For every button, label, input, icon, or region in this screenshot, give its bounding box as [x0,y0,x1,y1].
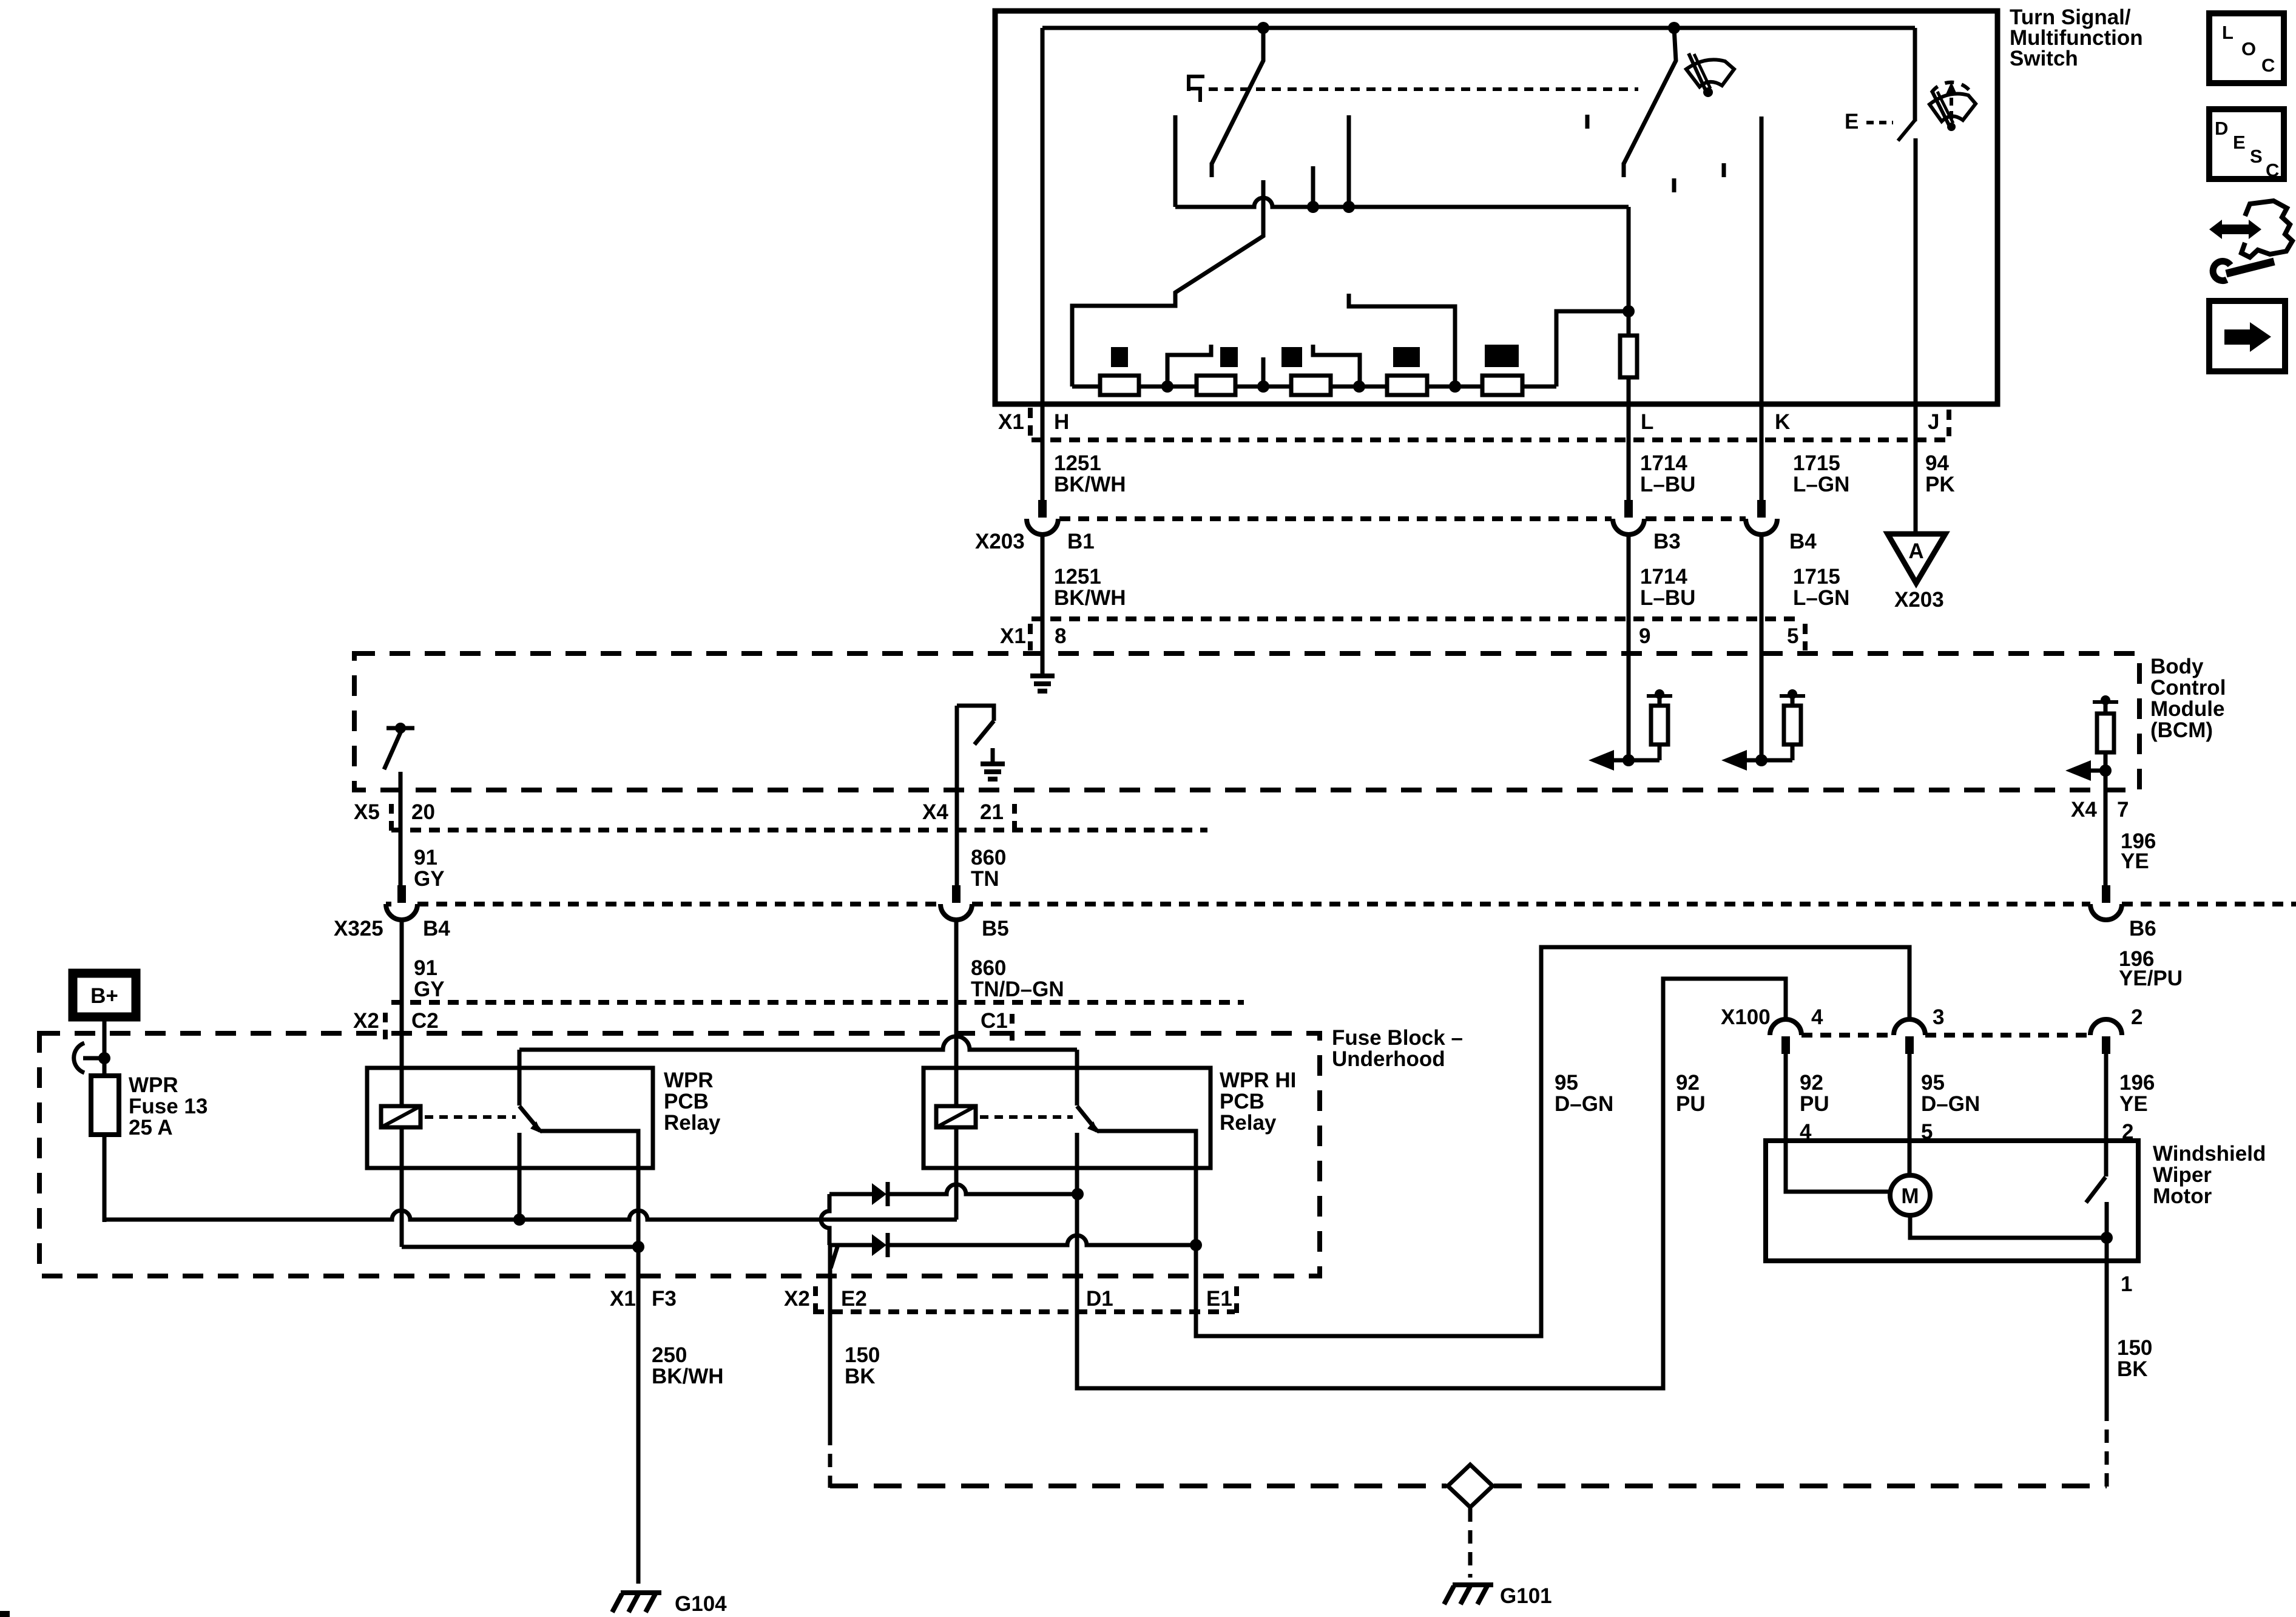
wire J lower [1914,138,1918,534]
off-page triangle A (to X203) [1888,534,1945,583]
connector line X325 [386,902,2296,906]
washer switch dashed link [1866,121,1893,124]
LOC box icon [2209,13,2284,83]
BCM park switch driver X4-21 [957,706,994,721]
svg-text:3: 3 [1933,1005,1944,1029]
svg-text:S: S [2250,146,2263,167]
washer switch blade SW-C [1898,120,1915,141]
wire motor to park switch [1910,1215,2107,1238]
wire from B+ [103,1014,107,1076]
svg-text:1714: 1714 [1640,451,1687,475]
node dot park switch common [2101,1232,2113,1244]
svg-text:91: 91 [414,956,437,980]
svg-text:2: 2 [2131,1005,2142,1029]
node dot ladder 4 [1449,380,1461,393]
park switch contact stub [2105,1202,2109,1238]
connector X325 pin B4 [397,885,406,903]
washer spray dashed arc [1931,83,1971,93]
node junction dot upper-right blade [1668,22,1680,34]
svg-text:94: 94 [1925,451,1949,475]
svg-text:1: 1 [2121,1272,2132,1296]
svg-text:PU: PU [1676,1092,1706,1116]
connector X203 pin B4 [1757,500,1766,518]
svg-text:X5: X5 [354,800,380,824]
relay K2 box [923,1068,1210,1168]
diode D1 line [829,1184,1078,1194]
connector tick after J [1947,410,1951,436]
resistor R6 (wash/mist) [1620,336,1637,377]
fixed contact post left [1173,115,1178,207]
connector tick X1 BCM [1028,624,1033,650]
svg-text:D1: D1 [1086,1287,1113,1311]
svg-text:B4: B4 [1789,530,1817,553]
svg-text:PK: PK [1925,473,1955,496]
gang tick 1 [1585,115,1590,129]
separator dotted line 2 [391,1000,1244,1005]
wire E2 drop with jog [828,1245,832,1432]
svg-text:150: 150 [845,1343,880,1367]
svg-text:PCB: PCB [664,1090,709,1113]
wire L upper segment [1627,207,1631,311]
fuse block dashed box [39,1033,1320,1276]
wire 5 segment to BCM [1760,535,1764,760]
ladder stub center [1261,357,1266,389]
svg-text:C: C [2266,160,2279,181]
contact stub row 2 [1347,115,1351,207]
svg-text:E2: E2 [841,1287,867,1311]
svg-text:8: 8 [1055,624,1066,648]
relay K2 NO contact line to E1 [1097,1131,1196,1336]
ground (park switch) [991,748,995,764]
svg-text:TN: TN [971,867,999,891]
node dot ladder 1 [1161,380,1173,393]
svg-text:C2: C2 [411,1009,439,1033]
contact pad square 5 [1485,345,1519,367]
wire C2 through coil [400,920,404,1106]
ground G104 [621,1590,661,1595]
relay K2 dashed link [980,1115,1073,1119]
svg-text:C: C [2261,55,2275,76]
diode D2 line [830,1235,1196,1245]
connector tick X2 bottom [813,1286,818,1313]
svg-text:L–GN: L–GN [1793,586,1849,610]
svg-text:YE/PU: YE/PU [2119,967,2183,990]
fuse WPR Fuse 13 25A [91,1076,119,1135]
svg-text:L–GN: L–GN [1793,473,1849,496]
relay K2 coil [936,1106,976,1127]
svg-text:5: 5 [1787,624,1798,648]
svg-text:Relay: Relay [664,1111,721,1135]
svg-text:91: 91 [414,846,437,869]
wire motor pin 2 into box [2104,1054,2109,1176]
gang tick 2 [1672,178,1676,192]
moving contact chain of rotary switch [1072,180,1263,387]
resistor R4 (delay) [1387,376,1427,395]
svg-text:WPR HI: WPR HI [1220,1068,1296,1092]
wire C1 through coil [954,920,959,1106]
ladder right riser to wire L [1556,311,1629,387]
svg-text:PU: PU [1800,1092,1829,1116]
ladder jumper hook C [1349,294,1455,387]
svg-text:9: 9 [1639,624,1650,648]
node dot K1 common on feed line [513,1214,525,1226]
connector tick after 5 [1803,624,1808,650]
relay K1 dashed link [425,1115,516,1119]
resistor R1 (delay) [1100,376,1139,395]
svg-text:(BCM): (BCM) [2150,718,2213,742]
svg-text:B+: B+ [90,984,118,1008]
svg-text:Fuse 13: Fuse 13 [129,1095,208,1118]
svg-text:L: L [1641,410,1653,434]
contact row line y341 with hop over moving contact [1175,198,1629,207]
diode CR2 [872,1234,886,1256]
node dot contact row 2 [1343,201,1355,213]
contact pad square 4 [1393,347,1420,367]
svg-text:GY: GY [414,867,445,891]
svg-text:L: L [2222,22,2234,43]
svg-text:92: 92 [1800,1071,1823,1095]
svg-text:Module: Module [2150,697,2224,721]
connector line X2 bottom [813,1309,1235,1314]
fuse clip symbol [74,1043,84,1073]
svg-text:BK: BK [2117,1357,2148,1381]
wire L below resistor [1627,377,1631,501]
contact stub SW-A [1210,163,1214,177]
svg-text:1251: 1251 [1054,451,1101,475]
gang tick 3 [1722,163,1726,177]
connector X325 pin B5 [952,885,961,903]
svg-text:250: 250 [652,1343,687,1367]
svg-text:YE: YE [2121,849,2149,873]
page artifact mark [0,1611,10,1617]
svg-text:Windshield: Windshield [2153,1142,2266,1166]
svg-text:J: J [1928,410,1939,434]
svg-text:25 A: 25 A [129,1116,173,1139]
svg-text:E: E [2233,132,2246,153]
svg-text:1714: 1714 [1640,565,1687,589]
wire 21 inside BCM [955,706,959,885]
contact stub SW-B [1622,163,1626,177]
relay top link with hop over C1 [519,1036,1077,1050]
wire E1 95 D-GN route [1196,947,1909,1336]
svg-text:860: 860 [971,846,1006,869]
wire K vertical (to pin K) [1760,116,1764,501]
svg-text:F3: F3 [652,1287,677,1311]
connector X203 pin B3 [1624,500,1633,518]
ground (BCM pin 8) [1041,660,1045,676]
wire D1 92 PU route [1077,979,1786,1388]
BCM switch driver X5-20 [387,726,414,731]
connector line X203 [1059,516,1746,521]
node dot at fuse top [98,1052,110,1064]
ladder jumper hook A [1167,345,1211,387]
ground distribution dashed line [830,1484,1447,1488]
line B coil return [402,1245,638,1249]
svg-text:PCB: PCB [1220,1090,1264,1113]
wire motor pin 5 [1908,1054,1912,1175]
relay K1 contact stub [518,1133,522,1220]
svg-text:L–BU: L–BU [1640,473,1695,496]
svg-text:B1: B1 [1067,530,1095,553]
connector X100 pin 2 [2090,1019,2122,1035]
svg-text:D–GN: D–GN [1555,1092,1613,1116]
svg-text:WPR: WPR [664,1068,714,1092]
svg-text:95: 95 [1555,1071,1578,1095]
connector tick after 21 [1012,804,1017,831]
svg-text:Motor: Motor [2153,1184,2212,1208]
relay K1 blade [519,1106,540,1131]
connector tick X2 [383,1013,388,1039]
contact pad square 1 [1111,347,1128,367]
ground G101 [1453,1582,1493,1587]
svg-text:G101: G101 [1500,1584,1552,1608]
connector line X100 [1801,1033,2090,1038]
connector line X1 [1032,437,1950,442]
switch blade SW-A (wiper on/off upper) [1212,28,1263,164]
contact stub row 1 [1311,166,1315,207]
resistor R3 (delay) [1291,376,1331,395]
svg-text:BK: BK [845,1365,876,1388]
svg-text:D–GN: D–GN [1921,1092,1980,1116]
svg-text:Body: Body [2150,655,2204,678]
svg-text:TN/D–GN: TN/D–GN [971,977,1064,1001]
B+ feed line A with hops [104,1210,957,1220]
next-page arrow box icon [2209,301,2285,371]
BCM input cell wire 5 (resistor + arrow) [1755,754,1768,766]
wire E2 dashed to ground line [828,1432,832,1488]
wire J from bus corner [1913,28,1917,121]
washer jet dashed arrow [1950,89,1953,119]
svg-text:M: M [1901,1184,1919,1208]
svg-text:X2: X2 [784,1287,810,1311]
svg-text:Control: Control [2150,676,2226,700]
dashed drop to G101 [1468,1508,1473,1578]
connector line X1 BCM [1032,616,1801,621]
svg-text:BK/WH: BK/WH [1054,473,1126,496]
svg-text:Wiper: Wiper [2153,1163,2212,1187]
connector tick after C1 [1010,1014,1015,1041]
svg-text:X4: X4 [922,800,948,824]
relay K1 box [367,1068,653,1168]
svg-text:1251: 1251 [1054,565,1101,589]
connector tick X5 [389,804,394,831]
switch blade SW-B (HI-LO select) [1624,28,1676,164]
svg-text:O: O [2241,38,2256,59]
svg-text:860: 860 [971,956,1006,980]
contact pad square 3 [1281,347,1302,367]
connector tick after E1 [1234,1286,1239,1313]
svg-text:X2: X2 [353,1009,379,1033]
resistor R2 (delay) [1197,376,1235,395]
BCM input cell wire 9 (resistor + arrow) [1622,754,1635,766]
wire 20 inside BCM [399,772,403,885]
node junction dot upper-left blade [1257,22,1269,34]
svg-text:G104: G104 [675,1592,727,1616]
svg-text:YE: YE [2119,1092,2148,1116]
svg-text:D: D [2215,118,2228,139]
diode feed vertical with hop around feed line [821,1194,829,1245]
relay K1 NO contact line [540,1131,638,1247]
DESC box icon [2209,109,2284,179]
wire 9 segment to BCM [1627,535,1631,760]
svg-text:WPR: WPR [129,1073,178,1097]
wiper icon (LO) [1686,59,1734,87]
BCM dashed box [354,653,2139,790]
svg-text:Relay: Relay [1220,1111,1277,1135]
contact pad square 2 [1220,347,1238,367]
connector X100 pin 3 [1894,1019,1925,1035]
wire 1 dashed to ground line [2105,1408,2109,1488]
svg-text:BK/WH: BK/WH [1054,586,1126,610]
svg-text:95: 95 [1921,1071,1945,1095]
diode CR1 [872,1183,886,1205]
node dot ladder 3 [1353,380,1365,393]
svg-text:150: 150 [2117,1336,2152,1360]
connector X203 pin B1 [1038,500,1047,518]
svg-text:C1: C1 [981,1009,1008,1033]
svg-text:X100: X100 [1721,1005,1771,1029]
svg-text:Switch: Switch [2010,47,2078,70]
bus wire (inner top line) [1042,26,1915,30]
svg-text:Underhood: Underhood [1332,1047,1445,1071]
ladder jumper hook B [1313,345,1360,387]
wire X4-7 out of BCM [2104,771,2108,885]
svg-text:BK/WH: BK/WH [652,1365,724,1388]
node dot ladder 2 [1257,380,1269,393]
relay K2 armature pivot wire [1075,1050,1079,1106]
svg-text:E: E [1845,110,1859,133]
svg-text:B3: B3 [1653,530,1681,553]
wire fuse to feed line [103,1135,107,1222]
svg-text:E1: E1 [1206,1287,1232,1311]
svg-text:7: 7 [2117,798,2129,822]
svg-text:B5: B5 [982,917,1009,940]
battery feed B+ terminal [73,973,136,1017]
svg-text:1715: 1715 [1793,565,1840,589]
splice diamond S1 [1448,1465,1493,1507]
repair info icon (arrow hand wrench) [2209,220,2261,239]
svg-text:H: H [1054,410,1069,434]
wire L into resistor R6 [1627,311,1631,336]
svg-text:A: A [1908,539,1923,563]
BCM output cell X4-7 (resistor + arrow) [2099,765,2112,777]
separator dotted line [391,828,1207,832]
svg-text:X1: X1 [1000,624,1026,648]
multifunction switch box S1 [995,11,1997,404]
relay K2 contact stub to D1 [1075,1133,1079,1312]
relay K2 blade [1077,1106,1097,1131]
svg-text:L–BU: L–BU [1640,586,1695,610]
connector tick X1 [1028,408,1033,436]
svg-text:Fuse Block –: Fuse Block – [1332,1026,1463,1050]
node dot at F3 junction [632,1241,644,1253]
wire motor pin 1 out [2105,1238,2109,1408]
wire motor pin 4 [1786,1054,1889,1192]
relay K1 coil [381,1106,420,1127]
mechanical gang dashed link [1209,87,1638,91]
svg-text:X203: X203 [975,530,1025,553]
wire F3 out [636,1247,641,1584]
resistor ladder baseline [1072,385,1556,389]
svg-text:X1: X1 [998,410,1024,434]
svg-text:B6: B6 [2129,917,2156,940]
svg-text:X203: X203 [1894,588,1944,612]
node dot diode1 to D1 [1072,1188,1084,1200]
svg-text:196: 196 [2119,1071,2155,1095]
svg-text:GY: GY [414,977,445,1001]
node dot contact row 1 [1307,201,1319,213]
gang link bracket mark [1189,76,1204,102]
node dot diode2 to E1 [1190,1239,1202,1251]
svg-text:92: 92 [1676,1071,1700,1095]
connector X100 pin 4 [1770,1019,1801,1035]
svg-text:X325: X325 [334,917,383,940]
wiper motor box [1766,1141,2138,1261]
svg-text:1715: 1715 [1793,451,1840,475]
wire H vertical upper [1041,28,1045,501]
svg-text:B4: B4 [423,917,450,940]
washer icon with spray [1930,94,1976,121]
svg-text:21: 21 [980,800,1004,824]
connector X325 pin B6 [2102,885,2110,903]
svg-text:K: K [1775,410,1790,434]
park switch blade [2086,1177,2105,1203]
svg-text:20: 20 [411,800,435,824]
resistor R5 (delay) [1482,376,1522,395]
svg-text:X1: X1 [610,1287,636,1311]
wire H lower segment [1041,535,1045,676]
svg-text:X4: X4 [2071,798,2097,822]
svg-text:4: 4 [1811,1005,1823,1029]
node dot on wire L [1622,305,1635,317]
relay K1 armature pivot wire [518,1050,522,1106]
motor M1 circle [1890,1175,1930,1215]
